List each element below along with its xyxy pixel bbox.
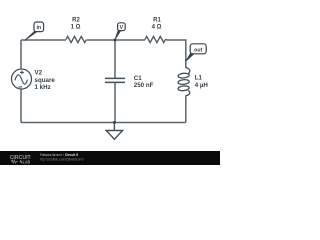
inductor L1 <box>178 68 190 96</box>
node junction dot top (V node) <box>114 39 117 42</box>
voltage source V2 <box>12 69 32 89</box>
capacitor C1 <box>105 78 125 82</box>
svg-text:http://circuitlab.com/c/5jt4ab: http://circuitlab.com/c/5jt4ab9cnm3 <box>40 158 84 162</box>
svg-text:L1: L1 <box>195 75 203 82</box>
wire between junction V and R1 <box>115 39 145 41</box>
svg-text:4 µH: 4 µH <box>195 82 209 89</box>
svg-text:R1: R1 <box>153 18 161 24</box>
svg-text:V: V <box>120 25 124 31</box>
resistor R2 <box>66 36 86 42</box>
wire left vertical from corner to V2 top <box>20 40 22 69</box>
node junction dot bottom (ground node) <box>113 121 116 124</box>
svg-text:4 Ω: 4 Ω <box>152 25 162 31</box>
svg-text:square: square <box>35 77 56 84</box>
wire capacitor branch upper <box>114 40 116 78</box>
resistor R1 <box>145 36 167 42</box>
svg-text:R2: R2 <box>72 18 80 24</box>
wire inductor bottom to bottom-right corner <box>185 96 187 123</box>
wire top-left horizontal segment (node in) <box>21 39 66 41</box>
svg-text:C1: C1 <box>134 75 142 82</box>
svg-text:in: in <box>36 25 41 31</box>
flag in (node in) <box>25 22 44 41</box>
svg-text:250 nF: 250 nF <box>134 82 154 89</box>
svg-text:1 kHz: 1 kHz <box>35 84 51 91</box>
wire bottom horizontal <box>21 122 186 124</box>
svg-text:V2: V2 <box>35 70 43 77</box>
wire capacitor branch lower <box>114 83 116 123</box>
wire between R2 and junction V <box>87 39 115 41</box>
footer bar <box>0 151 220 165</box>
svg-text:✎LAB: ✎LAB <box>20 159 31 164</box>
svg-text:1 Ω: 1 Ω <box>71 25 81 31</box>
svg-text:out: out <box>194 47 202 53</box>
wire R1 to top-right corner and down to inductor <box>167 40 186 68</box>
flag out (node out) <box>186 44 207 62</box>
wire V2 bottom to bottom-left corner <box>20 89 22 123</box>
ground <box>106 123 122 140</box>
flag V (voltage probe node) <box>115 23 125 40</box>
